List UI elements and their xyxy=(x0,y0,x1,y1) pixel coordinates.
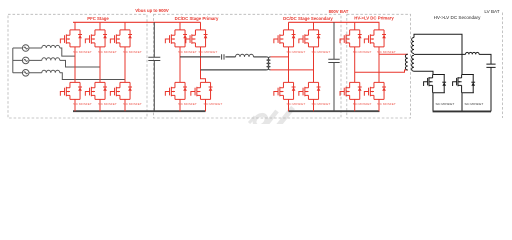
mosfet Q8 xyxy=(186,30,208,47)
inductor output xyxy=(466,52,480,54)
svg-text:SiC MOSFET: SiC MOSFET xyxy=(178,50,197,54)
mosfet Q5 xyxy=(85,82,107,99)
mosfet Q19 xyxy=(424,75,447,93)
wire drain leads PFC top row xyxy=(75,22,125,30)
wire DC bus negative PFC/DCDC xyxy=(73,110,206,112)
mosfet Q2 xyxy=(85,30,107,47)
wire phase A to leg1 xyxy=(60,48,75,56)
wire mid rails bridge3 xyxy=(289,47,314,83)
svg-text:SiC MOSFET: SiC MOSFET xyxy=(377,102,396,106)
mosfet Q16 xyxy=(364,30,386,47)
svg-text:SiC MOSFET: SiC MOSFET xyxy=(353,50,372,54)
mosfet Q4 xyxy=(60,82,82,99)
svg-text:SiC MOSFET: SiC MOSFET xyxy=(465,102,484,106)
wire inductor to transformer xyxy=(254,56,267,58)
AC source V1 xyxy=(22,45,29,52)
svg-text:SiC MOSFET: SiC MOSFET xyxy=(287,50,306,54)
wire drain leads bridge3 xyxy=(289,22,314,30)
transformer T1 secondary winding xyxy=(268,57,270,70)
inductor LC xyxy=(42,70,60,73)
mosfet Q14 xyxy=(299,82,321,99)
dashed box PFC stage xyxy=(8,14,147,118)
svg-text:DC/DC Stage Primary: DC/DC Stage Primary xyxy=(175,16,219,21)
svg-text:SiC MOSFET: SiC MOSFET xyxy=(98,102,117,106)
svg-text:800V BAT: 800V BAT xyxy=(329,9,349,14)
wire secondary bottom to SR fet Q19 xyxy=(414,71,433,74)
wire DC bus negative secondary xyxy=(289,110,380,112)
wire mid rails bridge2 xyxy=(180,47,206,83)
transformer T2 secondary winding lower xyxy=(412,55,414,71)
svg-text:SiC MOSFET: SiC MOSFET xyxy=(73,50,92,54)
AC source V2 xyxy=(22,57,29,64)
svg-text:HV->LV DC Secondary: HV->LV DC Secondary xyxy=(434,15,481,20)
wire inductor to output node xyxy=(479,54,491,64)
svg-text:SiC MOSFET: SiC MOSFET xyxy=(98,50,117,54)
svg-text:SiC MOSFET: SiC MOSFET xyxy=(312,50,331,54)
node common AC neutral bar xyxy=(12,48,14,73)
svg-text:SiC MOSFET: SiC MOSFET xyxy=(204,102,223,106)
svg-text:DC/DC Stage Secondary: DC/DC Stage Secondary xyxy=(283,16,333,21)
inductor resonant xyxy=(236,54,254,57)
wire SR source leads xyxy=(433,93,462,112)
wire phase C left xyxy=(13,72,42,74)
svg-text:SiC MOSFET: SiC MOSFET xyxy=(199,50,218,54)
wire primary return xyxy=(201,69,267,71)
mosfet Q6 xyxy=(110,82,132,99)
svg-text:SiC MOSFET: SiC MOSFET xyxy=(73,102,92,106)
svg-text:SiC MOSFET: SiC MOSFET xyxy=(377,50,396,54)
wire source leads bridge2 xyxy=(180,99,206,111)
mosfet Q20 xyxy=(453,75,476,93)
mosfet Q18 xyxy=(364,82,386,99)
wire secondary bottom lead xyxy=(271,69,314,71)
mosfet Q10 xyxy=(191,82,213,99)
inductor LA xyxy=(42,45,60,48)
svg-text:SiC MOSFET: SiC MOSFET xyxy=(312,102,331,106)
transformer T2 primary winding xyxy=(405,54,407,70)
mosfet Q11 xyxy=(274,30,296,47)
svg-text:Vbus up to 900V: Vbus up to 900V xyxy=(135,8,169,13)
wire source leads bridge4 xyxy=(355,99,379,111)
svg-text:LV BAT: LV BAT xyxy=(484,9,499,14)
wire drain leads bridge2 xyxy=(180,22,201,30)
capacitor resonant xyxy=(222,54,224,59)
transformer T1 primary winding xyxy=(267,57,269,70)
svg-text:SiC MOSFET: SiC MOSFET xyxy=(436,102,455,106)
svg-text:SiC MOSFET: SiC MOSFET xyxy=(178,102,197,106)
wire drain leads bridge4 xyxy=(355,22,379,30)
svg-text:SiC MOSFET: SiC MOSFET xyxy=(287,102,306,106)
wire center tap to inductor xyxy=(414,53,466,55)
mosfet Q1 xyxy=(60,30,82,47)
inductor LB xyxy=(42,58,60,61)
capacitor DC link xyxy=(148,22,160,111)
wire phase A left xyxy=(13,47,42,49)
wire DC bus positive secondary xyxy=(289,21,380,23)
svg-text:SiC MOSFET: SiC MOSFET xyxy=(123,50,142,54)
watermark xyxy=(249,108,293,129)
wire LV ground rail xyxy=(433,110,491,112)
mosfet Q9 xyxy=(165,82,187,99)
svg-text:HV->LV DC Primary: HV->LV DC Primary xyxy=(354,16,394,21)
mosfet Q17 xyxy=(340,82,362,99)
wire phase B left xyxy=(13,59,42,61)
capacitor LV output xyxy=(486,64,495,67)
wire source leads PFC bottom row xyxy=(75,99,125,111)
wire T2 primary bottom lead xyxy=(355,70,408,72)
capacitor 800V BAT xyxy=(328,22,339,111)
svg-text:SiC MOSFET: SiC MOSFET xyxy=(123,102,142,106)
wire phase B to leg2 xyxy=(60,60,100,67)
svg-text:PFC Stage: PFC Stage xyxy=(87,16,109,21)
wire mid rails bridge4 xyxy=(355,47,379,83)
wire DC bus positive PFC/DCDC xyxy=(73,21,201,23)
mosfet Q15 xyxy=(340,30,362,47)
mosfet Q7 xyxy=(165,30,187,47)
dashed box DC/DC stage xyxy=(154,14,342,118)
wire mid rails PFC xyxy=(75,47,125,83)
wire resonant link top xyxy=(180,56,236,58)
mosfet Q12 xyxy=(299,30,321,47)
mosfet Q13 xyxy=(274,82,296,99)
wire secondary top lead xyxy=(271,56,289,58)
dashed box HV-LV DC primary xyxy=(347,14,411,118)
wire phase C to leg3 xyxy=(60,73,125,80)
mosfet Q3 xyxy=(110,30,132,47)
wire cap to ground rail xyxy=(490,67,492,111)
AC source V3 xyxy=(22,70,29,77)
dashed line LV BAT boundary xyxy=(502,13,504,119)
transformer T2 secondary winding upper xyxy=(412,38,414,54)
wire T2 primary top lead xyxy=(379,53,408,55)
wire secondary top to SR fet Q20 xyxy=(414,34,462,74)
svg-text:SiC MOSFET: SiC MOSFET xyxy=(353,102,372,106)
wire source leads bridge3 xyxy=(289,99,314,111)
